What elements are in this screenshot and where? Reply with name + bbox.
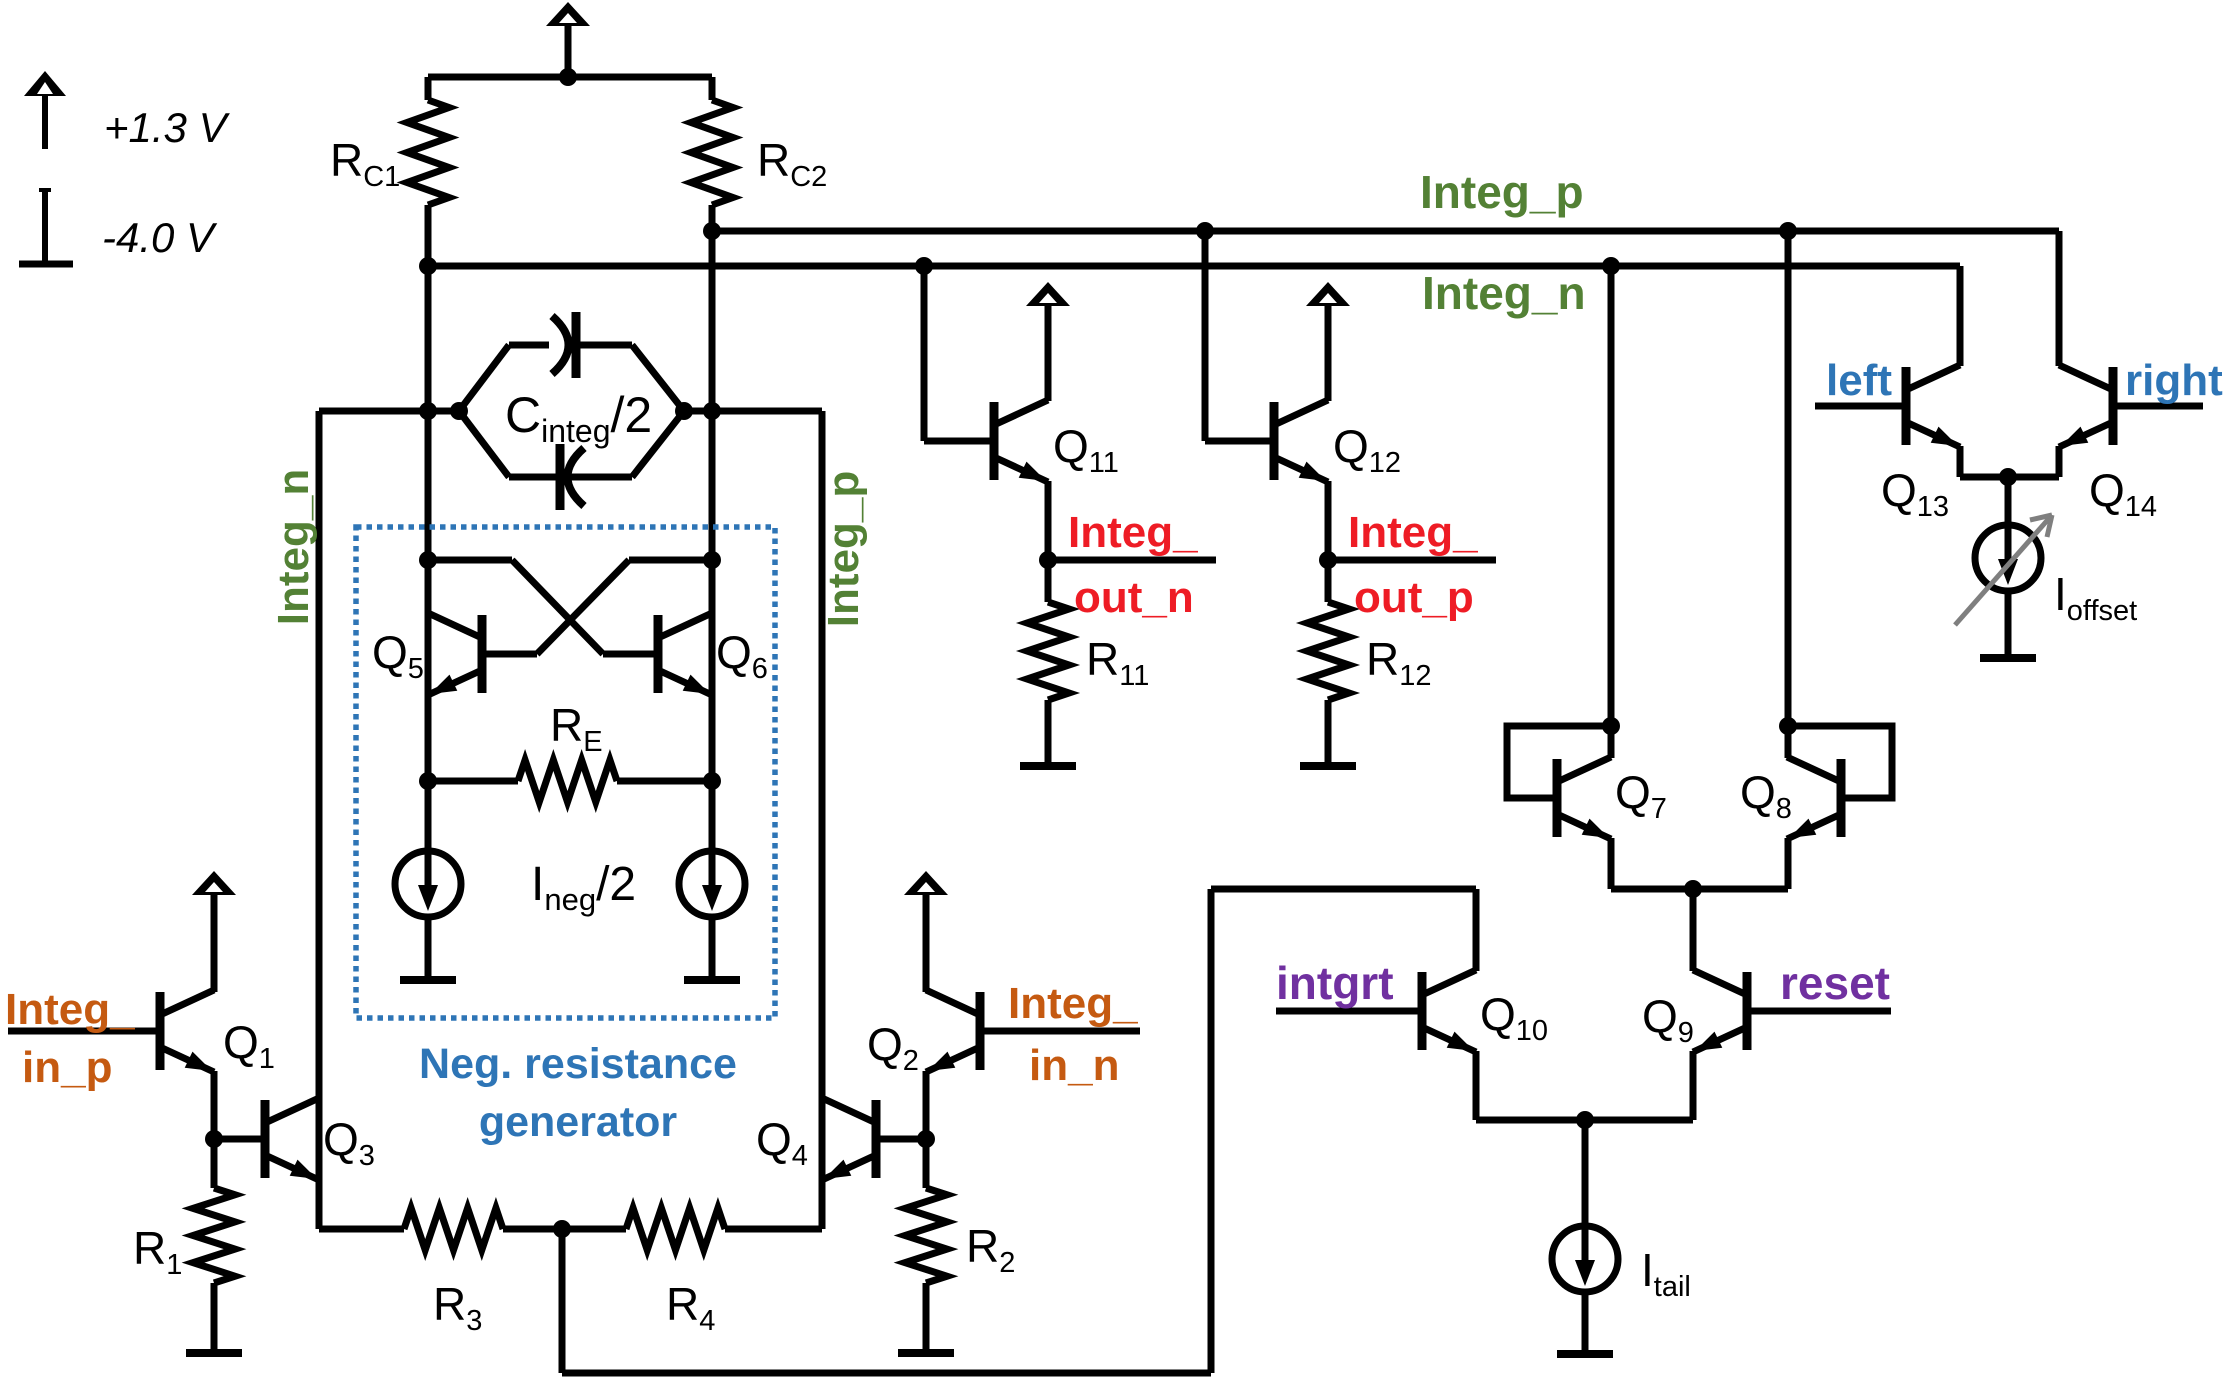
svg-text:Neg. resistance: Neg. resistance [419, 1040, 737, 1088]
svg-text:out_n: out_n [1074, 573, 1194, 622]
svg-text:Integ_: Integ_ [1008, 979, 1138, 1028]
svg-text:left: left [1826, 356, 1892, 405]
svg-text:generator: generator [479, 1098, 678, 1146]
svg-text:Integ_: Integ_ [1348, 508, 1478, 557]
svg-text:in_n: in_n [1029, 1041, 1119, 1090]
svg-text:intgrt: intgrt [1276, 957, 1394, 1009]
svg-text:reset: reset [1780, 957, 1890, 1009]
svg-text:Integ_p: Integ_p [819, 471, 868, 627]
svg-text:in_p: in_p [22, 1043, 112, 1092]
svg-text:Integ_p: Integ_p [1420, 166, 1584, 218]
svg-text:Integ_: Integ_ [1068, 508, 1198, 557]
svg-text:Integ_n: Integ_n [269, 469, 318, 625]
svg-text:out_p: out_p [1354, 573, 1474, 622]
svg-text:Integ_: Integ_ [5, 985, 135, 1034]
svg-text:right: right [2125, 356, 2223, 405]
svg-text:Integ_n: Integ_n [1422, 267, 1586, 319]
svg-text:+1.3 V: +1.3 V [104, 104, 231, 151]
svg-text:-4.0 V: -4.0 V [102, 214, 218, 261]
